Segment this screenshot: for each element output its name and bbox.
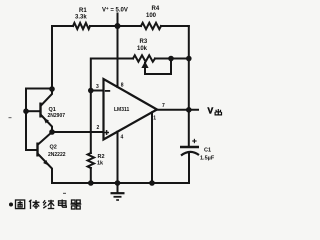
- wire V+ stub: [117, 14, 119, 27]
- caption text: solid state relay (drawn CJK glyphs): [16, 200, 82, 210]
- svg-text:R1: R1: [79, 8, 87, 14]
- node V+ junction: [115, 23, 121, 29]
- ground stub: [117, 183, 119, 193]
- svg-text:V+ = 5.0V: V+ = 5.0V: [102, 6, 128, 14]
- op-amp minus sign: [105, 90, 110, 92]
- capacitor C1 plus sign: [192, 139, 196, 143]
- wire output pin 7: [157, 109, 198, 111]
- node pin1 ground junction: [149, 180, 155, 186]
- wire R3 right lead: [155, 58, 189, 60]
- wire from node to left column: [26, 89, 52, 151]
- transistor Q2 collector lead: [38, 132, 52, 145]
- wire pin 4 vertical: [117, 132, 119, 183]
- node output junction: [186, 107, 192, 113]
- op-amp plus sign: [104, 130, 109, 135]
- node Q1 collector junction: [49, 86, 55, 92]
- dian: [59, 201, 66, 206]
- node ground junction: [115, 180, 121, 186]
- transistor Q1 base bar: [39, 103, 41, 118]
- label V out subscript chu: [215, 109, 221, 115]
- ti: [30, 200, 32, 209]
- wire Q2 base: [26, 149, 37, 151]
- wire pin 8 vertical: [117, 26, 119, 87]
- resistor R3: [133, 55, 155, 61]
- svg-text:LM311: LM311: [114, 107, 130, 113]
- wire pin 1 vertical: [151, 112, 153, 183]
- gu: [16, 200, 25, 209]
- wire capacitor bottom lead: [188, 154, 190, 183]
- svg-text:3: 3: [96, 84, 99, 90]
- node R2 ground junction: [88, 180, 94, 186]
- node Q1 base junction: [23, 108, 29, 114]
- qi: [72, 200, 76, 203]
- node pin3 junction: [88, 88, 94, 94]
- node R3 wiper junction: [168, 56, 174, 62]
- transistor Q2 base bar: [36, 143, 38, 157]
- node Q1/Q2 junction: [49, 129, 55, 135]
- svg-text:2N2222: 2N2222: [48, 152, 66, 158]
- transistor Q2 NPN arrow: [43, 160, 48, 166]
- wire R2 lower lead: [90, 168, 92, 183]
- caption bullet: [9, 203, 13, 207]
- wire left branch vertical from top rail: [51, 26, 53, 89]
- transistor Q1 PNP arrow: [44, 118, 49, 124]
- svg-text:V: V: [208, 106, 214, 116]
- transistor Q1 emitter lead: [41, 115, 52, 132]
- transistor Q1 collector lead: [41, 89, 52, 106]
- R3 wiper arrow: [141, 61, 148, 68]
- wire right branch vertical: [188, 26, 190, 146]
- ground: [111, 193, 125, 200]
- wire R3 left branch: [91, 59, 133, 91]
- speck above caption: [63, 193, 66, 194]
- wire top rail right to corner: [161, 25, 189, 27]
- op-amp U1 triangle: [104, 79, 158, 140]
- svg-text:100: 100: [146, 13, 157, 19]
- wire top rail left segment: [52, 25, 73, 27]
- svg-text:R4: R4: [152, 6, 160, 12]
- wire op-amp pin3 input: [91, 90, 104, 92]
- transistor Q2 emitter lead: [38, 154, 52, 183]
- svg-text:C1: C1: [204, 148, 211, 154]
- wire bottom rail: [52, 182, 189, 184]
- svg-text:2N2907: 2N2907: [48, 113, 66, 119]
- svg-text:1.5µF: 1.5µF: [200, 156, 215, 162]
- svg-text:R2: R2: [98, 154, 105, 160]
- svg-text:10k: 10k: [137, 46, 148, 52]
- node R3 right junction: [186, 56, 192, 62]
- svg-text:Q2: Q2: [50, 145, 57, 151]
- wire op-amp pin2 input: [52, 131, 104, 133]
- resistor R2: [88, 153, 94, 168]
- svg-text:2: 2: [97, 125, 100, 131]
- svg-text:3.3k: 3.3k: [75, 15, 87, 21]
- ji: [43, 200, 45, 203]
- capacitor C1 plates: [180, 147, 199, 156]
- svg-text:1: 1: [153, 116, 156, 122]
- wire Q1 base: [26, 110, 40, 112]
- wire R3 wiper loop: [145, 59, 171, 75]
- resistor R1: [73, 23, 90, 29]
- resistor R4: [141, 23, 161, 29]
- wire top rail middle: [90, 25, 141, 27]
- wire R2 vertical upper: [90, 91, 92, 154]
- svg-text:R3: R3: [140, 39, 148, 45]
- speck left edge: [9, 117, 12, 118]
- svg-text:1k: 1k: [97, 161, 104, 167]
- svg-text:4: 4: [121, 135, 124, 141]
- svg-text:8: 8: [121, 83, 124, 89]
- svg-text:7: 7: [162, 103, 165, 109]
